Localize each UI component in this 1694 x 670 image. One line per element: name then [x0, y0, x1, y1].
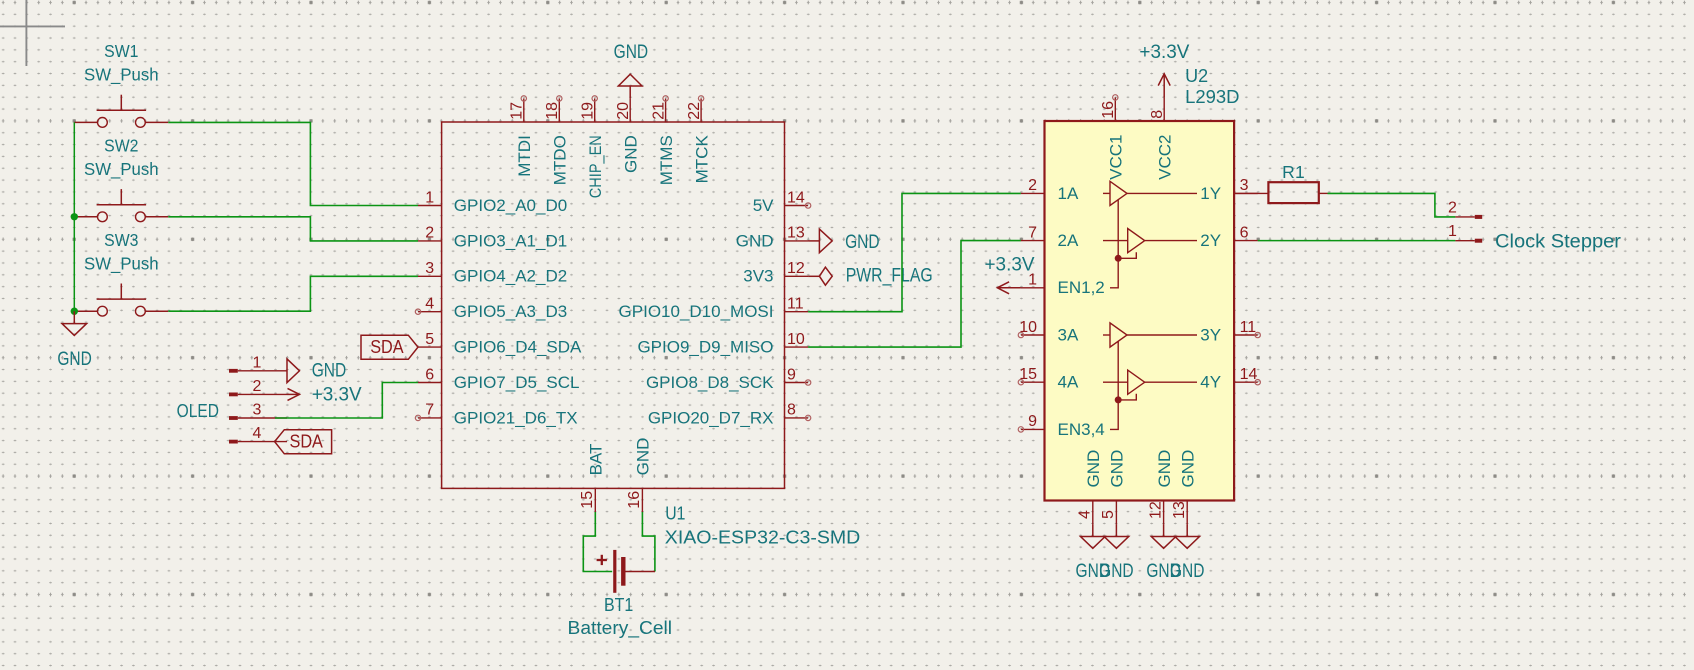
svg-text:16: 16 [1100, 101, 1117, 119]
U2 pin 8 VCC2 [1149, 97, 1175, 179]
svg-text:1A: 1A [1058, 184, 1079, 203]
wire U1 GND to BT1 - [642, 512, 655, 572]
U2 pin 7 2A [1021, 224, 1079, 250]
svg-text:4: 4 [253, 425, 262, 442]
svg-text:GND: GND [1170, 561, 1205, 582]
switch SW3 (SW_Push) [74, 230, 168, 316]
wire U2 1Y to R1 [1234, 192, 1268, 194]
U1 pin 22 MTCK [686, 96, 712, 184]
svg-text:17: 17 [509, 102, 526, 120]
svg-text:13: 13 [787, 225, 805, 242]
ground at U1 pin 20 (top) [618, 74, 642, 98]
ground at U1 pin 13 [808, 229, 832, 253]
svg-text:6: 6 [1240, 224, 1249, 241]
svg-text:GPIO21_D6_TX: GPIO21_D6_TX [454, 408, 578, 427]
U1 pin 16 GND [626, 438, 652, 512]
U1 pin 12 3V3 [743, 260, 808, 286]
svg-text:SW1: SW1 [104, 41, 138, 61]
svg-text:GPIO10_D10_MOSI: GPIO10_D10_MOSI [619, 302, 774, 321]
U2 pin 9 EN3,4 [1018, 413, 1105, 439]
svg-text:SW2: SW2 [104, 136, 138, 156]
U2 buffer 2 [1103, 229, 1197, 253]
svg-text:GND: GND [622, 135, 641, 173]
svg-text:20: 20 [615, 102, 632, 120]
svg-text:14: 14 [1240, 366, 1258, 383]
U1 pin 8 GPIO20_D7_RX [648, 402, 811, 428]
svg-text:Clock Stepper: Clock Stepper [1495, 231, 1622, 252]
U1 pin 6 GPIO7_D5_SCL [418, 366, 579, 392]
OLED pin 2 [229, 378, 287, 396]
U1 pin 18 MTDO [544, 96, 570, 186]
U2 pin 1 EN1,2 [1021, 272, 1105, 298]
ground at U2 pin 5 [1104, 524, 1129, 548]
U1 pin 14 5V [753, 189, 811, 215]
svg-text:15: 15 [1019, 366, 1037, 383]
+3.3V at U2 pin 1 EN1,2 [997, 282, 1021, 294]
svg-text:14: 14 [787, 189, 805, 206]
U1 pin 9 GPIO8_D8_SCK [646, 366, 811, 392]
OLED pin 1 [229, 354, 287, 372]
PWR_FLAG at U1 pin 12 [808, 267, 832, 285]
Clock Stepper pin 1 [1448, 223, 1482, 243]
svg-text:CHIP_EN: CHIP_EN [586, 135, 605, 198]
svg-text:7: 7 [1028, 224, 1037, 241]
svg-text:11: 11 [787, 296, 804, 313]
svg-text:GPIO4_A2_D2: GPIO4_A2_D2 [454, 267, 567, 286]
U2 pin 14 4Y [1200, 366, 1260, 392]
svg-text:11: 11 [1240, 319, 1257, 336]
wire switch common left bus [73, 122, 75, 311]
svg-text:16: 16 [626, 491, 643, 509]
svg-text:SW3: SW3 [104, 230, 138, 250]
svg-text:12: 12 [1147, 501, 1164, 519]
global label SDA at OLED pin 4 [275, 430, 332, 454]
OLED pin 4 [229, 425, 287, 443]
U1 pin 1 GPIO2_A0_D0 [418, 189, 567, 215]
svg-text:XIAO-ESP32-C3-SMD: XIAO-ESP32-C3-SMD [665, 528, 861, 548]
U2 pin 15 4A [1018, 366, 1079, 392]
svg-text:GND: GND [736, 231, 774, 250]
svg-text:5: 5 [425, 331, 434, 348]
svg-text:SW_Push: SW_Push [84, 65, 159, 86]
svg-text:3: 3 [425, 260, 434, 277]
svg-text:GPIO2_A0_D0: GPIO2_A0_D0 [454, 196, 567, 215]
svg-text:8: 8 [787, 402, 796, 419]
svg-text:R1: R1 [1282, 162, 1305, 182]
wire SW2 to U1 pin 2 [168, 217, 418, 241]
svg-text:8: 8 [1149, 110, 1166, 119]
U2 pin 12 GND [1147, 450, 1173, 524]
svg-text:15: 15 [579, 491, 596, 509]
svg-text:9: 9 [787, 366, 796, 383]
svg-text:2A: 2A [1058, 231, 1079, 250]
battery BT1 [597, 550, 655, 593]
svg-text:1Y: 1Y [1200, 184, 1221, 203]
svg-text:3: 3 [1240, 177, 1249, 194]
U2 pin 6 2Y [1200, 224, 1257, 250]
U1 pin 17 MTDI [509, 96, 535, 177]
wire U1 MOSI to U2 1A [808, 193, 1021, 311]
svg-text:GND: GND [1108, 450, 1127, 488]
svg-text:U1: U1 [665, 503, 685, 523]
svg-text:2: 2 [1028, 177, 1037, 194]
svg-text:L293D: L293D [1185, 87, 1239, 107]
U1 pin 21 MTMS [650, 96, 676, 186]
U1 pin 5 GPIO6_D4_SDA [418, 331, 582, 357]
svg-text:2: 2 [253, 378, 262, 395]
svg-text:4: 4 [1077, 510, 1094, 519]
U2 pin 16 VCC1 [1100, 95, 1126, 180]
svg-text:GND: GND [614, 42, 649, 63]
svg-text:3Y: 3Y [1200, 325, 1221, 344]
U1 pin 2 GPIO3_A1_D1 [418, 225, 567, 251]
svg-text:GND: GND [634, 438, 653, 476]
svg-text:EN1,2: EN1,2 [1058, 278, 1105, 297]
ground at OLED pin 1 [287, 359, 300, 383]
svg-text:19: 19 [580, 102, 597, 120]
svg-text:GND: GND [57, 349, 92, 370]
svg-text:GND: GND [1099, 561, 1134, 582]
U2 pin 13 GND [1171, 450, 1197, 524]
U1 pin 20 GND [615, 98, 641, 173]
wire OLED pin 3 to U1 pin 6 [275, 383, 418, 419]
svg-text:GPIO6_D4_SDA: GPIO6_D4_SDA [454, 338, 582, 357]
svg-text:VCC1: VCC1 [1107, 135, 1126, 180]
wire R1 to Clock Stepper pin 2 [1328, 193, 1456, 217]
svg-text:U2: U2 [1185, 66, 1208, 86]
U2 buffer 4 [1103, 370, 1197, 394]
ground at U2 pin 13 [1175, 524, 1200, 548]
U1 pin 4 GPIO5_A3_D3 [415, 296, 567, 322]
ground at U2 pin 4 [1081, 524, 1106, 548]
svg-text:2: 2 [1448, 199, 1457, 216]
svg-text:VCC2: VCC2 [1156, 135, 1175, 180]
U2 buffer 1 [1103, 181, 1197, 205]
svg-text:+3.3V: +3.3V [985, 255, 1035, 276]
svg-text:OLED: OLED [177, 401, 219, 421]
Clock Stepper pin 2 [1448, 199, 1482, 219]
wire U1 BAT to BT1 + [583, 512, 612, 572]
op-amp U2 body (L293D) [1045, 121, 1235, 501]
svg-text:+3.3V: +3.3V [312, 384, 362, 405]
svg-text:1: 1 [425, 189, 434, 206]
op-amp U1 body (XIAO-ESP32-C3-SMD) [442, 122, 785, 488]
switch SW1 (SW_Push) [74, 41, 168, 127]
resistor R1 [1268, 182, 1327, 203]
svg-text:SW_Push: SW_Push [84, 159, 159, 180]
svg-text:4: 4 [425, 296, 434, 313]
U2 pin 5 GND [1100, 450, 1126, 524]
svg-text:EN3,4: EN3,4 [1058, 420, 1105, 439]
svg-text:GPIO9_D9_MISO: GPIO9_D9_MISO [637, 338, 773, 357]
svg-text:5V: 5V [753, 196, 774, 215]
svg-text:9: 9 [1028, 413, 1037, 430]
svg-text:3: 3 [253, 402, 262, 419]
switch SW2 (SW_Push) [74, 136, 168, 222]
svg-text:GPIO7_D5_SCL: GPIO7_D5_SCL [454, 373, 580, 392]
svg-text:18: 18 [544, 102, 561, 120]
svg-text:MTMS: MTMS [657, 135, 676, 185]
U1 pin 3 GPIO4_A2_D2 [418, 260, 567, 286]
svg-text:21: 21 [650, 102, 667, 120]
+3.3V at OLED pin 2 [287, 388, 300, 400]
wire SW3 to U1 pin 3 [168, 276, 418, 311]
svg-text:10: 10 [1019, 319, 1037, 336]
svg-text:BAT: BAT [587, 444, 606, 476]
U1 pin 10 GPIO9_D9_MISO [637, 331, 808, 357]
svg-text:SDA: SDA [370, 337, 403, 357]
U2 enable net EN1,2 [1110, 200, 1136, 288]
svg-text:MTCK: MTCK [692, 135, 711, 184]
U2 pin 10 3A [1018, 319, 1079, 345]
OLED pin 3 [229, 402, 287, 420]
U1 pin 13 GND [736, 225, 808, 251]
svg-text:PWR_FLAG: PWR_FLAG [846, 265, 933, 286]
svg-text:1: 1 [1448, 223, 1457, 240]
svg-text:12: 12 [787, 260, 805, 277]
svg-text:+3.3V: +3.3V [1139, 42, 1189, 63]
svg-text:GND: GND [1084, 450, 1103, 488]
svg-text:BT1: BT1 [604, 595, 633, 615]
svg-text:6: 6 [425, 366, 434, 383]
ground below SW3 [62, 311, 87, 335]
wire U2 2Y to Clock Stepper pin 1 [1258, 240, 1456, 242]
svg-text:GPIO8_D8_SCK: GPIO8_D8_SCK [646, 373, 774, 392]
junction at SW3 common [71, 308, 78, 315]
wire U1 MISO to U2 2A [808, 241, 1021, 348]
svg-text:GPIO20_D7_RX: GPIO20_D7_RX [648, 408, 774, 427]
U2 pin 3 1Y [1200, 177, 1257, 203]
svg-text:4Y: 4Y [1200, 373, 1221, 392]
svg-text:GND: GND [312, 361, 347, 382]
+3.3V at U2 pin 8 [1158, 74, 1170, 98]
svg-text:4A: 4A [1058, 373, 1079, 392]
svg-text:GND: GND [1155, 450, 1174, 488]
svg-text:1: 1 [253, 354, 262, 371]
svg-text:SW_Push: SW_Push [84, 254, 159, 275]
svg-text:10: 10 [787, 331, 805, 348]
svg-text:2: 2 [425, 225, 434, 242]
svg-text:SDA: SDA [290, 432, 323, 452]
svg-text:MTDI: MTDI [515, 135, 534, 177]
U1 pin 11 GPIO10_D10_MOSI [619, 296, 809, 322]
sheet origin marker [0, 0, 65, 66]
svg-text:3A: 3A [1058, 325, 1079, 344]
svg-text:GND: GND [1178, 450, 1197, 488]
svg-text:MTDO: MTDO [551, 135, 570, 185]
svg-text:Battery_Cell: Battery_Cell [568, 618, 673, 639]
U2 pin 11 3Y [1200, 319, 1260, 345]
U2 pin 4 GND [1077, 450, 1103, 524]
svg-text:2Y: 2Y [1200, 231, 1221, 250]
svg-text:22: 22 [686, 102, 703, 120]
svg-text:GPIO3_A1_D1: GPIO3_A1_D1 [454, 231, 567, 250]
svg-text:GPIO5_A3_D3: GPIO5_A3_D3 [454, 302, 567, 321]
U2 buffer 3 [1103, 323, 1197, 347]
U1 pin 19 CHIP_EN [580, 96, 606, 198]
U1 pin 7 GPIO21_D6_TX [415, 402, 577, 428]
wire SW1 to U1 pin 1 [168, 122, 418, 205]
svg-text:GND: GND [845, 232, 880, 253]
U1 pin 15 BAT [579, 444, 605, 512]
U2 enable net EN3,4 [1110, 341, 1136, 429]
svg-text:5: 5 [1100, 510, 1117, 519]
global label SDA at U1 pin 5 [361, 335, 418, 359]
svg-text:13: 13 [1171, 501, 1188, 519]
svg-text:7: 7 [425, 402, 434, 419]
svg-text:3V3: 3V3 [743, 267, 773, 286]
junction at SW2 common [71, 213, 78, 220]
ground at U2 pin 12 [1151, 524, 1176, 548]
U2 pin 2 1A [1021, 177, 1079, 203]
